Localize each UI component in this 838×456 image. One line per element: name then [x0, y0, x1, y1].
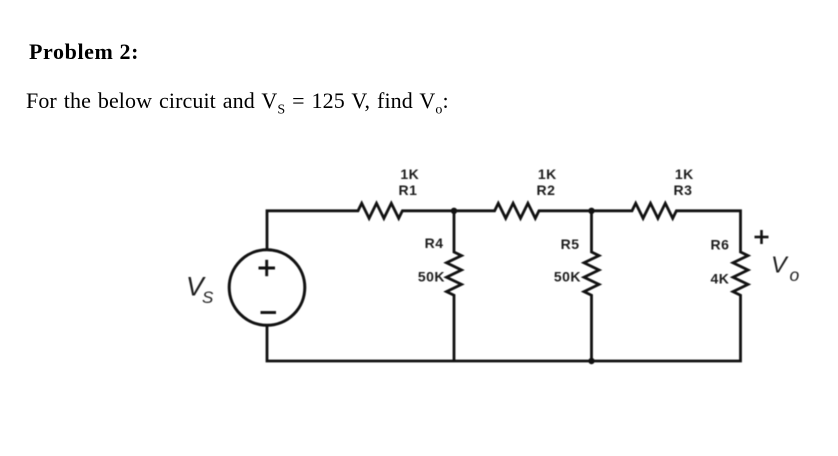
svg-text:1K: 1K [675, 166, 694, 182]
svg-text:R3: R3 [674, 182, 693, 198]
svg-text:50K: 50K [418, 269, 445, 285]
svg-text:o: o [790, 265, 800, 285]
svg-text:4K: 4K [711, 271, 730, 287]
svg-text:R2: R2 [537, 182, 556, 198]
svg-text:50K: 50K [554, 269, 581, 285]
svg-text:1K: 1K [400, 166, 419, 182]
svg-text:S: S [202, 288, 214, 307]
svg-text:V: V [771, 252, 789, 278]
svg-text:R5: R5 [561, 236, 580, 252]
svg-text:R1: R1 [399, 182, 418, 198]
svg-text:1K: 1K [538, 166, 557, 182]
svg-text:R4: R4 [425, 235, 444, 251]
svg-text:R6: R6 [711, 237, 730, 253]
